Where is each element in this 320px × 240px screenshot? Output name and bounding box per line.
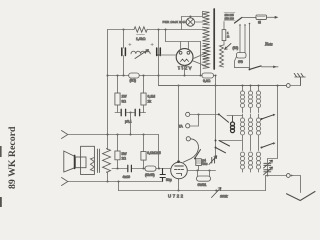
node dot W5 x159 [158, 167, 160, 169]
node dot cathode on W7 [177, 189, 179, 191]
svg-text:0W51: 0W51 [198, 183, 207, 187]
svg-text:0,1MΩ15: 0,1MΩ15 [147, 151, 161, 155]
T1 secondary tap lead [223, 22, 225, 30]
wire W8 grid network [187, 170, 215, 172]
wire W7 chassis bus [119, 190, 266, 192]
arrow through L1 [135, 50, 149, 59]
S5 pivot dot [249, 68, 251, 70]
resistor R6 rounded [145, 166, 156, 171]
S6 arrowhead [273, 114, 276, 117]
wire W6 speaker return [68, 181, 163, 183]
tap arrow T1 [225, 44, 232, 50]
node dot L4 bus [257, 84, 259, 86]
switch S5 mains lever [250, 66, 262, 70]
svg-text:5W: 5W [122, 152, 128, 156]
node dot W4 x117 [116, 133, 118, 135]
node dot B1 bus [214, 74, 216, 76]
plug P3 [286, 174, 290, 178]
wire W5 grid line [112, 168, 171, 170]
speaker SP1 frame [81, 146, 95, 174]
earth E2 symbol [294, 73, 305, 85]
resistor B2 rounded on W2 [129, 73, 140, 78]
wire W9 cap row [115, 112, 146, 114]
jack J3 [186, 137, 190, 141]
svg-text:60s: 60s [202, 162, 208, 166]
wire L11 top link [227, 115, 243, 117]
resistor R5 box [141, 152, 146, 161]
wire VC1 to plug [268, 175, 287, 177]
wire R3 top lead [143, 76, 145, 94]
resistor R3 box [141, 93, 146, 105]
coil L3 column2 row1 [250, 86, 252, 113]
wire cathode drop [178, 179, 180, 191]
node dot W4 x141 [142, 133, 144, 135]
wire R9 to switch [235, 57, 237, 68]
svg-text:0,6Ω: 0,6Ω [203, 79, 211, 83]
VC1b arrow [264, 167, 273, 175]
fuse F1 lead [242, 16, 256, 18]
capacitor C3 [121, 109, 125, 115]
wire selector tap1 [239, 25, 241, 53]
coil L10 column3 row3 [258, 169, 260, 172]
S3 pivot dot [215, 147, 217, 149]
svg-text:150 220: 150 220 [225, 16, 235, 20]
output transformer T2 core [97, 149, 99, 173]
wire R2 bottom lead [117, 105, 119, 113]
selector frame [224, 13, 235, 21]
node dot W5 R5 [142, 167, 144, 169]
T1 primary winding section 2 [203, 27, 210, 41]
coil L5 column1 row2 [242, 114, 244, 151]
svg-text:(W): (W) [238, 60, 243, 64]
node dot V2 at W2 [157, 74, 159, 76]
wire P4 link [290, 85, 300, 87]
U1 filament arcs [181, 59, 189, 62]
svg-text:300k: 300k [220, 195, 228, 199]
jack J2 [186, 124, 190, 128]
transformer T1 core [213, 9, 215, 69]
switch S1 lever [219, 114, 229, 122]
output transformer T2 winding a [90, 158, 94, 172]
mains arrow [267, 16, 276, 18]
svg-text:(0k45): (0k45) [145, 173, 155, 177]
wire R4 bottom lead [117, 160, 119, 169]
svg-text:9Ω: 9Ω [122, 100, 127, 104]
svg-text:0,1M: 0,1M [148, 95, 156, 99]
wire W4 drop to grid line [158, 135, 160, 169]
T1 primary winding section 4 [203, 60, 210, 69]
output tube U2 envelope [171, 162, 188, 179]
S1 pivot dot [218, 113, 220, 115]
S2 pivot dot [215, 140, 217, 142]
node dot V2 top [157, 28, 159, 30]
T2 winding b top lead [107, 149, 108, 150]
svg-text:TA: TA [179, 124, 184, 128]
node dot L2 bus [241, 84, 243, 86]
speaker SP1 magnet box [75, 157, 86, 168]
resistor B1 rounded [202, 73, 214, 78]
svg-text:4n10: 4n10 [123, 175, 131, 179]
svg-text:50µ: 50µ [166, 178, 172, 182]
resistor R1 zigzag [134, 27, 147, 32]
wire selector tap3 [249, 24, 251, 70]
resistor R8 box on secondary [222, 30, 226, 41]
switch S3 lever lower [216, 148, 226, 153]
node dot W8 right stub [208, 169, 210, 171]
node dot tuning rotor [266, 174, 268, 176]
node dot R2 top [116, 74, 118, 76]
svg-text:U722: U722 [168, 194, 185, 199]
node dot W6 transformer [106, 180, 108, 182]
wire J3 grid curve [183, 139, 198, 162]
node dot LP1 top [189, 15, 191, 17]
U2 anode bar [175, 165, 184, 167]
jack J1 [186, 112, 190, 116]
wire S1 row link [219, 140, 242, 142]
S7 pivot dot [261, 147, 263, 149]
trimmer C8 arrow [209, 156, 217, 165]
wire U2 anode from bus [178, 86, 180, 161]
rectifier U1 envelope [176, 49, 193, 66]
svg-text:AZ11: AZ11 [177, 66, 192, 71]
T2 winding b bottom lead [107, 172, 108, 173]
switch S7 lever right lower [262, 143, 274, 147]
wire B+ top rail [108, 29, 203, 31]
plug P4 antenna [286, 84, 290, 88]
wire U1 left lead [159, 54, 177, 56]
U2 grid dashes [175, 169, 184, 171]
capacitor C5 coupling [128, 165, 132, 172]
node dot pot [215, 189, 217, 191]
coil L8 column1 row3 [242, 169, 244, 172]
wire VR2 right vertical [277, 86, 279, 159]
U2 grid cap [177, 160, 180, 163]
fuse F1 [256, 15, 267, 19]
switch S6 lever right top [262, 115, 274, 119]
padder capacitor C7 [196, 159, 202, 166]
node dot W2 at C1 [122, 74, 124, 76]
wire R5 top lead [143, 135, 145, 152]
resistor R7 rounded [197, 176, 211, 181]
wire R5 bottom lead [143, 160, 145, 168]
coil L6 column2 row2 [250, 114, 252, 151]
svg-text:Netz: Netz [264, 42, 273, 47]
connector P1 chevron [62, 131, 68, 139]
wire P3 to earth drop [290, 176, 300, 193]
node dot at W2 x200 [199, 74, 201, 76]
svg-text:2Ω: 2Ω [122, 157, 127, 161]
wire LP1 right lead [195, 21, 203, 23]
S5 arrowhead [273, 66, 276, 69]
wire J2 up-link [190, 115, 199, 127]
coil L7 column3 row2 [258, 114, 260, 151]
VC1a arrow [264, 160, 273, 168]
trimmer C8 plates [212, 158, 215, 164]
wire B1 to bus [214, 75, 216, 77]
node dot VR1 bus [214, 84, 216, 86]
S4 pivot dot [194, 157, 196, 159]
wire R2 top lead [117, 76, 119, 94]
node dot J1 wire [197, 113, 199, 115]
plus mark C1 [129, 43, 132, 46]
speaker SP1 diaphragm bar [74, 156, 76, 169]
wire LP1 feed drop [181, 17, 183, 30]
plus mark C2 [151, 43, 154, 46]
node dot U1 bottom [183, 74, 185, 76]
svg-text:µ0,1: µ0,1 [125, 120, 132, 124]
wire U1 bottom lead [184, 65, 186, 75]
value label (10k) under R1 [137, 34, 145, 36]
T1 primary top lead [202, 12, 204, 17]
node dot V5 top [164, 28, 166, 30]
speaker SP1 cone [64, 151, 75, 172]
wire transformer bottom drop [107, 173, 109, 182]
node dot link [117, 180, 119, 182]
wire LP1 top feed [182, 17, 203, 18]
S6 pivot dot [261, 118, 263, 120]
svg-text:Si: Si [258, 21, 261, 25]
potentiometer arrow 300k [212, 188, 222, 198]
wire selector tap2 [244, 25, 246, 53]
node dot R3 top [142, 74, 144, 76]
wire R7 left stub [197, 171, 199, 177]
wire VC1 mid [267, 161, 269, 176]
T1 primary winding section 3 [203, 44, 210, 59]
wire vertical rail VR1 [215, 76, 217, 159]
S7 arrowhead [273, 142, 276, 145]
output transformer T2 winding b [103, 149, 111, 173]
connector P2 chevron [62, 178, 68, 186]
capacitor C4 [135, 109, 139, 115]
dial lamp LP1 [186, 18, 194, 26]
wire C1 bottom lead [123, 56, 125, 76]
resistor R9 mains box [237, 53, 247, 59]
wire U1 frame top [166, 41, 201, 43]
U1 anode dots [179, 51, 182, 54]
earth E1 chevron [287, 192, 316, 201]
wire W7 right end up [266, 176, 268, 191]
U2 cathode [177, 174, 182, 176]
choke L1 loops [131, 51, 150, 54]
node dot V2 cathode lead [157, 54, 159, 56]
coil L9 column2 row3 [250, 169, 252, 172]
tuning capacitor VC1b plates [264, 170, 271, 172]
wire S5 feed [235, 67, 250, 69]
wire J1 to switch [190, 114, 219, 116]
resistor R2 box [115, 93, 120, 105]
selector lever [235, 17, 243, 23]
wire C7 bottom stub [198, 165, 200, 170]
wire W6-W7 link [118, 182, 120, 191]
selector contact dots [239, 24, 241, 26]
node dot W4 x130 [129, 133, 131, 135]
node dot W5 R4 [116, 167, 118, 169]
wire V5 frame drop [165, 30, 167, 42]
switch S2 lever [219, 141, 230, 147]
wire VR2 to tuning cap [268, 159, 278, 162]
coil L2 column1 row1 [242, 86, 244, 113]
node dot L3 bus [249, 84, 251, 86]
wire R7 right stub [209, 171, 211, 177]
capacitor C1 electrolytic [122, 48, 126, 56]
node dot C3-C4 [129, 111, 131, 113]
coil L4 column3 row1 [258, 86, 260, 113]
switch S4 lever above C7 [195, 150, 201, 159]
svg-text:2k: 2k [148, 100, 152, 104]
wire R4 top lead [117, 135, 119, 152]
wire U1 top anode stubs [181, 42, 189, 50]
svg-text:1,0kΩ: 1,0kΩ [136, 37, 146, 41]
wire W4 node line [68, 134, 159, 136]
node dot W4 x108 [106, 133, 108, 135]
node dot at R1 left feed [122, 28, 124, 30]
LP1 cross [187, 19, 193, 25]
node dot W2 left [106, 74, 108, 76]
R8 bottom lead [223, 41, 225, 45]
node dot anode at bus [177, 84, 179, 86]
transformer T1 primary winding section 1 [203, 12, 210, 26]
tuning capacitor VC1a plates [264, 163, 271, 165]
U1 filament leads to winding [193, 53, 206, 66]
svg-text:(9Ω): (9Ω) [130, 79, 137, 83]
page edge mark bottom [0, 197, 2, 207]
wire C1 top lead [123, 30, 125, 49]
svg-text:89 WK Record: 89 WK Record [7, 126, 18, 189]
capacitor C2 electrolytic [157, 48, 161, 56]
main bus W3 [159, 85, 287, 87]
electrolytic C6 [160, 169, 165, 182]
svg-text:(15): (15) [233, 46, 239, 50]
wire AZ11 cathode drop [200, 42, 202, 76]
wire V1 B+ down to output transformer [107, 30, 109, 150]
resistor R4 box [115, 151, 120, 160]
node dot VR2 bus [276, 84, 278, 86]
svg-text:PER 16cX 0,4A: PER 16cX 0,4A [163, 20, 187, 24]
node dot W8 left stub [196, 169, 198, 171]
wire W2 screen rail [108, 75, 203, 77]
iron core coil L11 [232, 116, 234, 123]
wire C mid stub [130, 113, 132, 135]
svg-text:1W: 1W [122, 95, 128, 99]
page edge mark lower [0, 146, 2, 157]
wire R3 bottom lead [143, 105, 145, 113]
T1 heater winding right [220, 45, 224, 67]
wire S5 output [262, 66, 279, 68]
wire V2 from rail to bus [158, 30, 160, 86]
